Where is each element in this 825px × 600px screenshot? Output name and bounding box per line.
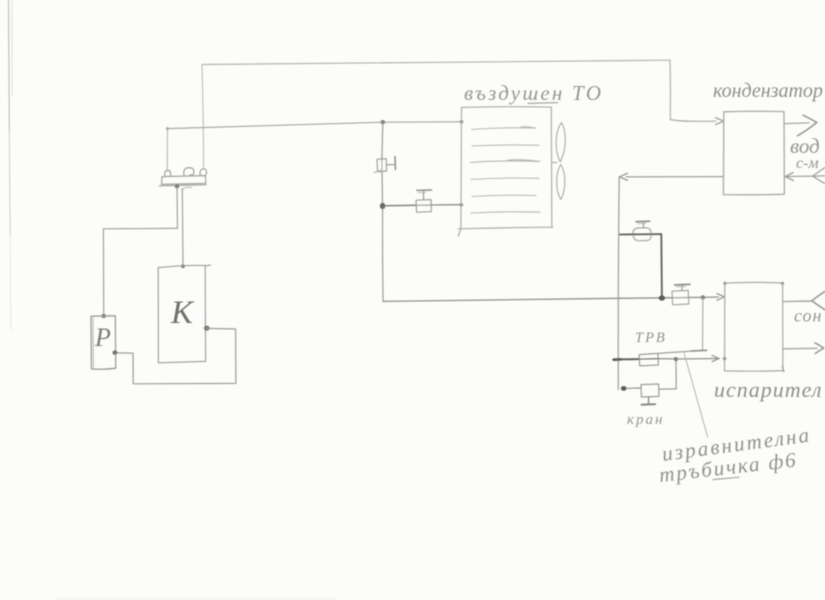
paper left edge line <box>8 0 11 130</box>
node D junction <box>674 357 678 361</box>
kran inlet dot <box>621 386 627 391</box>
kran stem and handle <box>648 397 650 404</box>
wire: vertical between V1 and node B <box>381 172 384 203</box>
node A junction <box>381 120 385 124</box>
valve V3 stem and handle <box>642 222 644 227</box>
equalizer tube top bar <box>691 349 707 352</box>
arrowhead brine outlet <box>815 343 824 354</box>
TRV inlet segment (dark) <box>614 358 621 361</box>
svg-text:К: К <box>170 295 195 331</box>
wire: suction past V4 to node C <box>689 296 703 298</box>
valve V1 stem and handle <box>387 164 395 166</box>
node K outlet <box>204 326 210 331</box>
condenser water inlet line <box>785 175 825 178</box>
valve V4 body <box>672 290 689 304</box>
bar loop right <box>200 169 206 176</box>
wire: K outlet loop <box>116 328 236 383</box>
node B junction (dark) <box>380 203 386 209</box>
svg-text:Р: Р <box>94 323 111 352</box>
fan blade bottom <box>557 165 565 200</box>
equalizer tube to TRV <box>658 351 691 353</box>
svg-text:ТРВ: ТРВ <box>635 330 667 346</box>
wire: horizontal to P riser <box>103 227 177 229</box>
underline under ич <box>713 477 739 479</box>
wire: discharge line vertical drop <box>669 60 671 119</box>
junction blob bypass to suction <box>659 295 665 300</box>
valve V3 body <box>633 228 651 234</box>
condenser box <box>723 111 784 195</box>
node P right <box>112 350 117 354</box>
K box <box>158 265 210 268</box>
node at slant corner <box>166 127 169 130</box>
node at TO box top inlet <box>460 120 464 124</box>
wire: TO lower feed right segment <box>431 204 461 206</box>
svg-text:сон: сон <box>794 306 822 326</box>
arrowhead evaporator suction inlet <box>717 294 724 301</box>
arrowhead liquid line <box>620 173 628 180</box>
arrowhead condenser inlet <box>716 118 724 125</box>
wire: kran outlet <box>659 388 676 390</box>
fan hub link <box>552 161 557 163</box>
brine inlet line <box>783 300 812 303</box>
wire: from bar down to K (right of pair) <box>181 189 184 266</box>
svg-text:испарител: испарител <box>714 377 822 402</box>
valve V2 stem and handle <box>422 191 424 200</box>
TO coil line 5 <box>472 195 536 196</box>
condenser water outlet line <box>785 122 809 125</box>
fletching water inlet <box>813 168 825 184</box>
evaporator corner ticks <box>723 282 726 285</box>
fan blade top <box>556 123 565 162</box>
TRV body <box>639 353 658 366</box>
node below bar <box>175 184 180 188</box>
underline under label part <box>528 102 558 105</box>
valve V2 body <box>416 200 431 213</box>
valve V4 stem and handle <box>681 286 683 291</box>
node at K box top <box>181 264 185 268</box>
P box <box>91 316 116 369</box>
arrowhead evaporator liquid inlet <box>712 355 719 361</box>
valve V1 body <box>377 159 387 172</box>
evaporator box <box>725 282 783 371</box>
wire: liquid line vertical drop <box>617 177 620 390</box>
wire: riser from service bar to top line <box>202 65 204 169</box>
wire: suction slant line to TO box <box>168 122 461 129</box>
brine outlet line <box>783 347 817 350</box>
wire: discharge line top horizontal <box>202 60 670 64</box>
bar loop middle <box>184 168 194 176</box>
wire: suction into evaporator <box>703 296 719 298</box>
wire: from bar down (left of pair) <box>176 186 179 228</box>
svg-text:с-м: с-м <box>796 155 819 172</box>
wire: TO lower feed left segment <box>385 204 416 206</box>
wire: discharge into condenser <box>670 120 716 122</box>
scribble below bar <box>182 187 192 189</box>
svg-text:кран: кран <box>627 412 664 428</box>
bypass branch line (dark) <box>620 233 661 235</box>
wire: short riser from bar left loop <box>166 129 168 171</box>
wire: P riser down <box>102 229 104 316</box>
TO coil line 3 <box>471 160 541 163</box>
node C junction <box>701 295 705 299</box>
TO coil line 4 <box>471 178 539 180</box>
wire: liquid line from condenser <box>626 176 723 178</box>
arrowhead water inlet at box <box>785 173 793 181</box>
node at TO box lower inlet <box>460 203 464 207</box>
service bar base line <box>159 185 206 186</box>
equalizer tube vertical <box>702 298 704 350</box>
service bar body <box>162 176 206 185</box>
bar loop left <box>165 170 171 175</box>
svg-text:въздушен ТО: въздушен ТО <box>464 81 603 105</box>
kran valve body <box>641 384 659 397</box>
svg-text:кондензатор: кондензатор <box>713 80 823 102</box>
node at evaporator inlet <box>723 357 726 360</box>
wire: kran inlet <box>627 387 642 389</box>
wire: suction run past crossing to valve V4 <box>618 297 671 300</box>
wire: suction run to right <box>383 298 618 301</box>
wire: TRV outlet to evaporator <box>676 358 718 361</box>
wire: kran riser to TRV line <box>675 361 677 389</box>
TRV outlet segment <box>658 358 675 360</box>
wire: suction drop from node B <box>382 209 385 301</box>
arrowhead brine inlet (big, pointing left) <box>812 291 825 301</box>
TO coil line 1 <box>472 127 537 130</box>
node at P box top <box>101 314 106 318</box>
paper bottom smudge <box>55 598 335 600</box>
TO coil line 2 <box>472 145 539 146</box>
bypass drop (dark) <box>660 234 663 297</box>
leader line to equalizer label <box>684 353 708 437</box>
TO heat-exchanger box <box>462 106 552 109</box>
arrowhead water outlet (big hand arrow) <box>803 115 817 122</box>
TO coil line 6 <box>471 212 540 213</box>
wire: vertical A down to valve V1 <box>381 122 384 159</box>
